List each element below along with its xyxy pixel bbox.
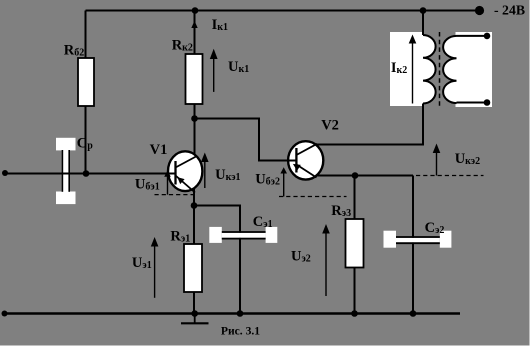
svg-text:- 24В: - 24В: [494, 2, 525, 17]
svg-text:V2: V2: [321, 117, 339, 133]
svg-text:V1: V1: [150, 142, 168, 158]
svg-text:Рис. 3.1: Рис. 3.1: [221, 325, 260, 338]
